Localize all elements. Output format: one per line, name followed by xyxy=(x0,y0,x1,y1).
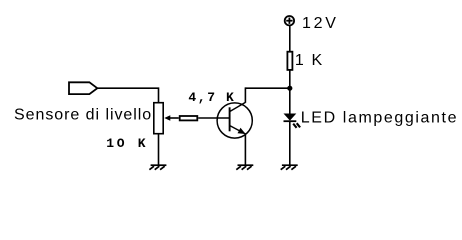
svg-text:1 K: 1 K xyxy=(295,52,323,69)
resistor R3 4,7 K xyxy=(180,116,198,120)
wire probe to potentiometer top xyxy=(97,88,158,103)
wire wiper to R3 xyxy=(170,117,179,119)
ground under potentiometer xyxy=(149,165,166,170)
wire R3 to transistor base xyxy=(198,117,229,119)
wire emitter to ground xyxy=(244,134,246,166)
transistor Q1 xyxy=(217,102,252,138)
sensor probe xyxy=(69,82,97,94)
wire junction to collector riser xyxy=(245,87,289,89)
ground under emitter xyxy=(236,165,253,170)
svg-text:LED lampeggiante: LED lampeggiante xyxy=(301,110,457,127)
svg-text:12V: 12V xyxy=(302,15,336,32)
resistor R1 1 K xyxy=(287,52,292,70)
+12V power symbol xyxy=(285,16,294,25)
ground under LED xyxy=(281,165,298,170)
wire from 12V to R1 xyxy=(289,26,291,52)
wire LED to ground xyxy=(289,122,291,165)
wire collector riser xyxy=(244,87,246,102)
wire from R1 down to LED (through junction) xyxy=(289,70,291,114)
potentiometer R2 10 K xyxy=(154,103,171,134)
svg-text:4,7 K: 4,7 K xyxy=(188,90,234,105)
wire pot bottom to ground xyxy=(158,134,160,166)
junction dot xyxy=(287,86,292,91)
svg-text:Sensore di livello: Sensore di livello xyxy=(14,107,151,124)
LED D1 xyxy=(284,114,301,128)
